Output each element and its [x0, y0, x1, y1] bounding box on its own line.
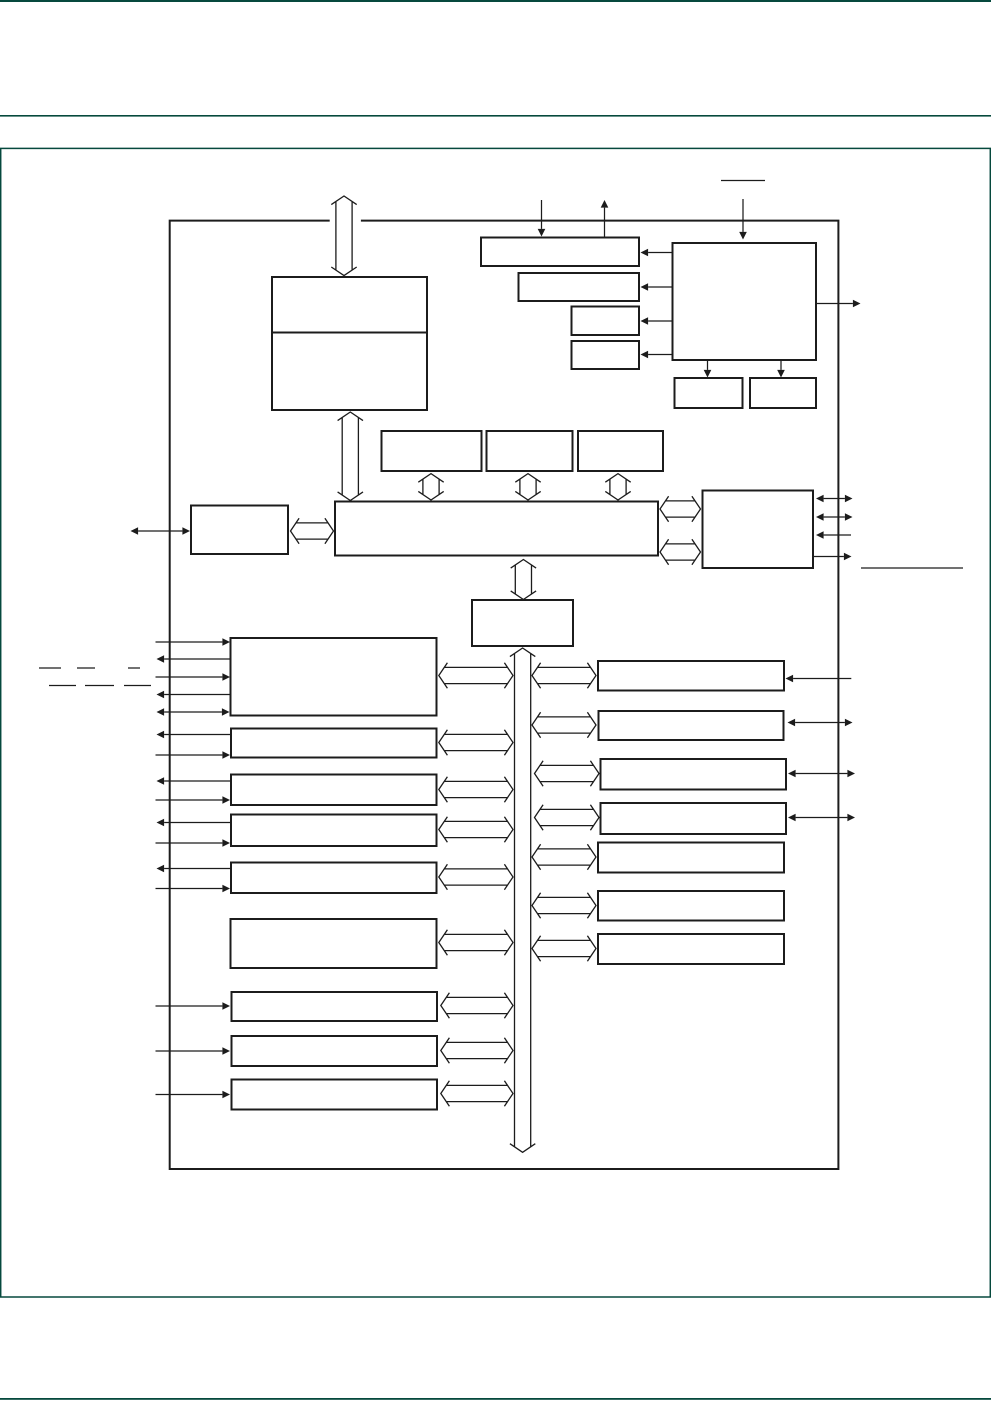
wire LC8 in [156, 1050, 223, 1052]
arrow BB to R2 lower [660, 539, 701, 564]
arrow LC to bus y1050.5 [441, 1038, 513, 1063]
block R1 [673, 243, 817, 360]
block C1 [472, 600, 573, 646]
block B1 divider [272, 332, 427, 334]
block LC3 [231, 775, 437, 806]
wire LC2 out [164, 734, 231, 736]
arrow LC to bus y829.5 [439, 817, 513, 842]
block RC1 [598, 661, 784, 691]
block LC8 [232, 1036, 438, 1066]
block S1 [675, 378, 743, 408]
bus arrow B1 to main bus [338, 412, 363, 501]
arrow BB to C1 [511, 560, 536, 600]
wire LC1 out a [164, 658, 231, 660]
dashed line row2 seg3 [124, 685, 151, 687]
arrow L1 to BB [291, 518, 334, 543]
block S2 [750, 378, 816, 408]
block RC6 [598, 891, 784, 921]
arrow bus to RC y948.5 [532, 936, 596, 961]
dashed line row2 seg1 [49, 685, 76, 687]
wire RC2 io [795, 722, 845, 724]
block T2 [519, 273, 640, 301]
block LC5 [231, 863, 437, 894]
wire R1 to S1 [707, 360, 709, 370]
block LC1 [231, 638, 437, 716]
dashed line row2 seg2 [85, 685, 114, 687]
central bus arrow [510, 648, 535, 1152]
wire LC1 out b [164, 694, 231, 696]
port bus arrow top [331, 196, 356, 276]
block LC6 [231, 919, 437, 968]
wire R2 io 2 [824, 516, 845, 518]
block T3 [572, 307, 640, 336]
block T4 [572, 341, 640, 369]
block L1 [191, 506, 288, 555]
arrow LC to bus y942.5 [439, 930, 513, 955]
wire LC5 in [156, 888, 223, 890]
wire LC1 in a [156, 641, 223, 643]
dashed line row1 seg1 [39, 667, 61, 669]
wire LC4 in [156, 842, 223, 844]
label pointer line [861, 567, 963, 569]
block M3 [578, 431, 663, 471]
dashed line row1 seg3 [128, 667, 140, 669]
wire R2 in [824, 534, 851, 536]
arrow bus to RC y725 [532, 712, 596, 737]
wire LC5 out [164, 868, 231, 870]
arrow bus to RC y817.5 [535, 805, 600, 830]
block B1 upper [272, 277, 427, 410]
arrow bus to RC y905.5 [532, 893, 596, 918]
arrow bus to RC y773.5 [535, 761, 600, 786]
wire R2 out [813, 556, 844, 558]
block LC4 [231, 815, 437, 847]
wire LC2 in [156, 754, 223, 756]
block RC5 [598, 843, 784, 873]
wire R1 to left box y287 [648, 286, 672, 288]
block BB main bus [335, 502, 658, 556]
arrow LC to bus y1093.5 [441, 1081, 513, 1106]
wire RC3 io [796, 773, 848, 775]
wire LC4 out [164, 822, 231, 824]
block LC7 [232, 992, 438, 1021]
overline label mark [721, 180, 765, 182]
block RC7 [598, 934, 784, 964]
wire LC9 in [156, 1094, 223, 1096]
arrow M1 to BB [418, 474, 443, 500]
wire RC1 in [793, 678, 851, 680]
arrow LC to bus y742.5 [439, 730, 513, 755]
wire LC3 in [156, 799, 223, 801]
wire L1 external [138, 530, 182, 532]
arrow M2 to BB [515, 474, 540, 500]
wire R1 to left box y252.5 [648, 252, 672, 254]
wire into T1 [541, 200, 543, 229]
block LC2 [231, 729, 437, 758]
arrow BB to R2 upper [660, 496, 701, 521]
wire R2 io 1 [824, 498, 845, 500]
block RC4 [601, 803, 787, 834]
wire RC4 io [796, 817, 848, 819]
arrow LC to bus y877 [439, 864, 513, 889]
arrow LC to bus y789.5 [439, 777, 513, 802]
wire R1 to left box y354.5 [648, 354, 672, 356]
wire R1 out right [816, 303, 853, 305]
block T1 [481, 238, 639, 267]
page bottom rule [0, 1398, 991, 1400]
dashed line row1 seg2 [77, 667, 95, 669]
block LC9 [232, 1080, 438, 1110]
arrow M3 to BB [605, 474, 630, 500]
wire LC3 out [164, 780, 231, 782]
block R2 [703, 491, 814, 569]
arrow LC to bus y675.5 [439, 663, 513, 688]
arrow bus to RC y675.5 [532, 663, 596, 688]
wire LC7 in [156, 1005, 223, 1007]
wire R1 to S2 [780, 360, 782, 370]
block RC2 [599, 711, 784, 740]
block M1 [382, 431, 482, 471]
page top rule [0, 0, 991, 2]
wire out of T1 [604, 208, 606, 237]
block RC3 [601, 759, 787, 790]
arrow bus to RC y857 [532, 844, 596, 869]
header separator rule [0, 115, 991, 117]
wire R1 to left box y321 [648, 320, 672, 322]
block M2 [487, 431, 573, 471]
arrow LC to bus y1005.5 [441, 993, 513, 1018]
chip boundary [170, 221, 839, 1169]
wire LC1 io [164, 711, 222, 713]
wire into R1 [742, 199, 744, 232]
wire LC1 in b [156, 676, 223, 678]
